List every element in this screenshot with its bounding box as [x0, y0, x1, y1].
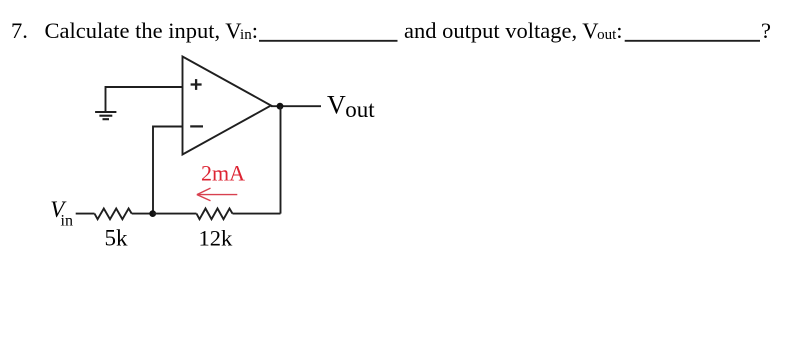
svg-text:in: in [61, 213, 73, 230]
svg-text:5k: 5k [105, 226, 129, 251]
ground [95, 112, 116, 119]
wire R2 to feedback corner [233, 213, 281, 215]
svg-text:V: V [327, 91, 346, 120]
op-amp plus pin label [191, 79, 202, 90]
blank line for Vin [259, 40, 398, 42]
blank line for Vout [625, 40, 760, 42]
wire Vin to resistor R1 [76, 213, 95, 215]
op-amp U1 triangle [183, 57, 272, 155]
node output junction dot [277, 103, 284, 110]
wire inverting input [153, 127, 183, 214]
svg-text:12k: 12k [199, 226, 234, 251]
wire feedback vertical [280, 106, 282, 213]
svg-text:?: ? [761, 18, 771, 43]
op-amp minus pin label [190, 125, 203, 127]
resistor R1 5k [95, 209, 132, 220]
wire non-inverting input to ground [106, 87, 183, 111]
svg-text:Calculate the input, Vin:: Calculate the input, Vin: [45, 18, 258, 43]
wire node A to resistor R2 [153, 213, 197, 215]
resistor R2 12k [197, 209, 233, 220]
current arrow 2mA direction [197, 188, 237, 201]
wire output [271, 105, 321, 107]
svg-text:and output voltage, Vout:: and output voltage, Vout: [404, 18, 623, 43]
svg-text:out: out [345, 97, 375, 122]
svg-text:7.: 7. [11, 18, 28, 43]
wire R1 to node A [132, 213, 153, 215]
node A junction dot [149, 210, 156, 217]
svg-text:2mA: 2mA [201, 161, 245, 186]
